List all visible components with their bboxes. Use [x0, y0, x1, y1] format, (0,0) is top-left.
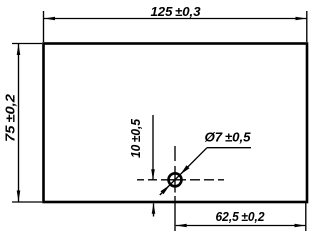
arrowhead bottom (75): [17, 191, 21, 202]
extension line right (top dimension): [306, 11, 308, 42]
svg-text:Ø7 ±0,5: Ø7 ±0,5: [205, 130, 252, 145]
dimension line 62,5: [176, 225, 306, 227]
label 75 ±0,2: [3, 93, 18, 142]
dimension line 125: [44, 18, 307, 20]
svg-text:62,5 ±0,2: 62,5 ±0,2: [216, 209, 266, 224]
arrowhead left (62,5): [176, 224, 187, 228]
extension line top (left dimension): [12, 43, 42, 45]
arrowhead right (125): [296, 17, 307, 21]
arrowhead right (62,5): [295, 224, 306, 228]
extension line bottom (left dimension): [12, 201, 42, 203]
svg-text:75 ±0,2: 75 ±0,2: [3, 93, 18, 142]
leader diagonal line (diameter): [160, 148, 207, 195]
center line horizontal: [137, 179, 224, 181]
arrowhead up (10): [152, 203, 156, 214]
label 125 ±0,3: [151, 4, 202, 19]
label Ø7 ±0,5: [205, 130, 252, 145]
arrowhead down (10): [151, 169, 155, 180]
plate outline: [44, 44, 308, 203]
extension line below hole (62,5 dimension): [174, 202, 176, 231]
extension line right bottom (62,5 dimension): [305, 203, 307, 231]
label 62,5 ±0,2: [216, 209, 266, 224]
extension line left (top dimension): [43, 11, 45, 42]
arrowhead left (125): [44, 17, 55, 21]
arrowhead lower-left on hole: [161, 185, 170, 194]
dimension line 10 lower segment: [153, 204, 155, 217]
leader shelf: [207, 147, 251, 149]
label 10 ±0,5: [128, 118, 143, 158]
dimension line 75: [18, 44, 20, 202]
hole circle: [169, 173, 182, 186]
dimension line 10 upper segment: [152, 115, 154, 179]
arrowhead upper-right on hole: [180, 165, 189, 174]
svg-text:10 ±0,5: 10 ±0,5: [128, 118, 143, 158]
arrowhead top (75): [17, 44, 21, 55]
svg-text:125 ±0,3: 125 ±0,3: [151, 4, 202, 19]
center line vertical: [174, 146, 176, 202]
